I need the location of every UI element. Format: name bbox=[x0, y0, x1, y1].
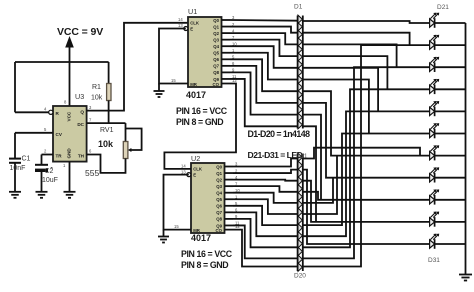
svg-text:555: 555 bbox=[85, 168, 99, 178]
wire D18 to LED D25 bbox=[303, 111, 430, 236]
label U1 bbox=[188, 7, 197, 16]
svg-text:Q9: Q9 bbox=[213, 77, 219, 82]
wire U2 Q7 to D18 bbox=[233, 212, 298, 236]
LED D22 bbox=[430, 35, 466, 50]
wire GND pin U3 bbox=[69, 162, 71, 192]
label 10nF bbox=[10, 165, 26, 172]
IC U1 4017 counter bbox=[184, 17, 230, 87]
label D1-D20 = 1n4148 bbox=[248, 129, 311, 139]
wire R pin to VCC net bbox=[15, 111, 49, 113]
svg-text:PIN 16 = VCC: PIN 16 = VCC bbox=[176, 106, 228, 116]
LED D29 bbox=[430, 189, 466, 204]
label PIN16 VCC U2 bbox=[181, 249, 233, 259]
svg-text:CO: CO bbox=[216, 228, 223, 233]
svg-text:Q8: Q8 bbox=[213, 70, 219, 75]
LED D24 bbox=[430, 79, 466, 94]
wire U2 Q8 to D19 bbox=[233, 219, 298, 247]
wire D11 feed corridor bbox=[303, 148, 420, 159]
wire D6 to LED D26 bbox=[303, 80, 369, 134]
wire TR pin to C2 bbox=[42, 155, 54, 165]
diode D2 bbox=[298, 30, 302, 38]
svg-text:MR: MR bbox=[190, 82, 198, 87]
svg-text:C2: C2 bbox=[45, 168, 54, 175]
label 555 bbox=[85, 168, 99, 178]
label PIN16 VCC U1 bbox=[176, 106, 228, 116]
svg-text:15: 15 bbox=[174, 224, 179, 229]
svg-text:10nF: 10nF bbox=[10, 165, 26, 172]
wire D12 to LED D31 bbox=[303, 170, 430, 244]
svg-text:GND: GND bbox=[67, 148, 72, 159]
label U2 bbox=[191, 154, 200, 163]
wire D16 to LED D27 bbox=[303, 156, 337, 214]
svg-text:CLK: CLK bbox=[193, 167, 203, 172]
wire LED cathode bus bbox=[465, 23, 467, 275]
wire U1 Q5 to D6 bbox=[230, 53, 298, 80]
svg-text:14: 14 bbox=[178, 17, 183, 22]
svg-text:CO: CO bbox=[213, 82, 220, 87]
svg-text:CV: CV bbox=[56, 132, 63, 137]
svg-text:Q3: Q3 bbox=[213, 37, 219, 42]
wire diode column anode rail bbox=[297, 16, 299, 129]
wire U1 Q4 to D5 bbox=[230, 46, 298, 68]
svg-text:Q1: Q1 bbox=[216, 171, 222, 176]
diode D1 bbox=[298, 15, 302, 31]
capacitor C2 bbox=[35, 165, 53, 192]
wire D2 to LED D22 bbox=[303, 33, 410, 45]
wire D5 to LED D25 bbox=[303, 68, 378, 112]
svg-text:C1: C1 bbox=[22, 156, 31, 163]
wire U2 Q0 to D11 bbox=[233, 159, 298, 167]
ground bbox=[459, 275, 472, 281]
diode D5 bbox=[298, 60, 302, 76]
LED D25 bbox=[430, 101, 466, 116]
svg-text:13: 13 bbox=[178, 23, 183, 28]
svg-text:Q1: Q1 bbox=[213, 24, 219, 29]
label C2 bbox=[45, 168, 54, 175]
wire U1 Q7 to D8 bbox=[230, 66, 298, 103]
wire D7 to LED D27 bbox=[303, 91, 430, 155]
wire U2 CO to D20 cathode rail bbox=[225, 230, 298, 267]
wire U2 Q6 to D17 bbox=[233, 206, 298, 225]
svg-text:Q6: Q6 bbox=[216, 204, 222, 209]
label RV1 10k bbox=[98, 139, 114, 149]
diode D12 bbox=[298, 161, 302, 177]
wire U1 Q1 to D2 bbox=[230, 27, 298, 33]
wire diode column anode rail bbox=[297, 154, 299, 272]
svg-text:10k: 10k bbox=[91, 95, 103, 102]
diode D8 bbox=[298, 98, 302, 106]
node label D21 bbox=[437, 4, 449, 11]
node label D11 bbox=[296, 153, 308, 160]
svg-text:15: 15 bbox=[171, 78, 176, 83]
svg-text:D21: D21 bbox=[437, 4, 449, 11]
diode D11 bbox=[298, 153, 302, 161]
label PIN8 GND U2 bbox=[181, 260, 228, 270]
wire U2 Q4 to D15 bbox=[233, 193, 298, 203]
label 4017 U2 bbox=[191, 233, 211, 243]
wire U1 CO to U2 CLK bbox=[164, 84, 236, 169]
LED D27 bbox=[430, 145, 466, 160]
wire D19 to LED D24 bbox=[303, 89, 430, 247]
LED D30 bbox=[430, 212, 466, 227]
svg-text:PIN 8 = GND: PIN 8 = GND bbox=[176, 117, 223, 127]
wire U2 Q5 to D16 bbox=[233, 199, 298, 214]
label R1 10k bbox=[91, 95, 103, 102]
label 4017 U1 bbox=[186, 90, 206, 100]
svg-text:Q8: Q8 bbox=[216, 217, 222, 222]
label D21-D31 = LED bbox=[248, 150, 303, 160]
node label D20 bbox=[294, 273, 306, 280]
wire U1 Q3 to D4 bbox=[230, 40, 298, 56]
diode D4 bbox=[298, 53, 302, 61]
pin numbers U2 bbox=[174, 162, 240, 229]
wire D17 to LED D26 bbox=[303, 134, 430, 226]
wire U1 Q6 to D7 bbox=[230, 59, 298, 91]
svg-text:RV1: RV1 bbox=[100, 127, 114, 134]
wire U2 E and MR to ground bbox=[164, 175, 192, 230]
LED D31 bbox=[430, 234, 466, 249]
LED D28 bbox=[430, 167, 466, 182]
label VCC = 9V bbox=[57, 26, 103, 38]
wire D20 to LED D23 bbox=[303, 67, 430, 258]
svg-text:4017: 4017 bbox=[191, 233, 211, 243]
svg-text:U3: U3 bbox=[75, 92, 84, 101]
wire diode column cathode rail bbox=[302, 154, 304, 272]
ground bbox=[64, 192, 76, 198]
svg-text:D1-D20 = 1n4148: D1-D20 = 1n4148 bbox=[248, 129, 311, 139]
ground bbox=[9, 192, 21, 198]
wire D9 to LED D29 bbox=[303, 115, 321, 200]
label U3 bbox=[75, 92, 84, 101]
wire U1 E and MR to ground bbox=[159, 29, 188, 84]
svg-text:4017: 4017 bbox=[186, 90, 206, 100]
svg-text:Q3: Q3 bbox=[216, 184, 222, 189]
ground bbox=[36, 192, 48, 198]
svg-text:13: 13 bbox=[181, 169, 186, 174]
svg-text:E: E bbox=[193, 173, 196, 178]
potentiometer RV1 bbox=[123, 129, 141, 159]
LED D21 bbox=[430, 13, 466, 28]
svg-text:10uF: 10uF bbox=[42, 177, 58, 184]
wire VCC rail bbox=[15, 62, 109, 112]
svg-text:Q9: Q9 bbox=[216, 223, 222, 228]
svg-text:D21-D31 = LED: D21-D31 = LED bbox=[248, 150, 303, 160]
diode D13 bbox=[298, 177, 302, 185]
label C1 bbox=[22, 156, 31, 163]
wire U2 Q9 to D20 bbox=[233, 225, 298, 258]
diode D20 bbox=[298, 255, 302, 271]
svg-text:E: E bbox=[190, 27, 193, 32]
wire U1 Q0 to D1 bbox=[230, 19, 298, 22]
wire U1 Q2 to D3 bbox=[230, 33, 298, 44]
svg-text:D1: D1 bbox=[294, 4, 303, 11]
power VCC symbol bbox=[65, 36, 74, 62]
svg-text:U2: U2 bbox=[191, 154, 200, 163]
wire Q out 555 to U1 CLK bbox=[87, 23, 188, 111]
svg-text:Q4: Q4 bbox=[216, 191, 222, 196]
LED D26 bbox=[430, 123, 466, 138]
svg-text:PIN 16 = VCC: PIN 16 = VCC bbox=[181, 249, 233, 259]
diode D9 bbox=[298, 106, 302, 122]
svg-text:Q7: Q7 bbox=[216, 210, 222, 215]
wire D1 to LED D21 bbox=[303, 21, 430, 23]
capacitor C1 bbox=[9, 159, 21, 192]
wire D14 to LED D29 bbox=[303, 192, 430, 200]
pin 4 bubble U3 bbox=[49, 110, 53, 114]
svg-text:TR: TR bbox=[56, 153, 63, 158]
diode D19 bbox=[298, 239, 302, 255]
diode D15 bbox=[298, 200, 302, 208]
wire U1 Q8 to D9 bbox=[230, 72, 298, 114]
svg-text:Q2: Q2 bbox=[216, 177, 222, 182]
label RV1 bbox=[100, 127, 114, 134]
wire D15 to LED D28 bbox=[303, 178, 333, 203]
diode D18 bbox=[298, 232, 302, 240]
diode D17 bbox=[298, 216, 302, 232]
resistor R1 bbox=[107, 84, 111, 124]
svg-text:PIN 8 = GND: PIN 8 = GND bbox=[181, 260, 228, 270]
svg-text:Q7: Q7 bbox=[213, 64, 219, 69]
svg-text:Q: Q bbox=[80, 110, 84, 115]
svg-text:CLK: CLK bbox=[190, 21, 200, 26]
svg-text:D20: D20 bbox=[294, 273, 306, 280]
diode D7 bbox=[298, 83, 302, 99]
diode D14 bbox=[298, 185, 302, 201]
svg-text:D31: D31 bbox=[428, 257, 440, 264]
svg-text:Q0: Q0 bbox=[213, 18, 219, 23]
ground bbox=[158, 230, 169, 243]
svg-text:Q6: Q6 bbox=[213, 57, 219, 62]
wire U1 Q9 to D10 bbox=[230, 79, 298, 126]
svg-text:10k: 10k bbox=[98, 139, 114, 149]
svg-text:Q4: Q4 bbox=[213, 44, 219, 49]
svg-text:Q0: Q0 bbox=[216, 164, 222, 169]
svg-text:DC: DC bbox=[77, 122, 84, 127]
wire D8 to LED D28 bbox=[303, 103, 430, 178]
svg-text:TH: TH bbox=[78, 153, 85, 158]
svg-text:Q5: Q5 bbox=[216, 197, 222, 202]
wire D3 to LED D23 bbox=[303, 44, 397, 67]
svg-text:14: 14 bbox=[181, 163, 186, 168]
label PIN8 GND U1 bbox=[176, 117, 223, 127]
diode D6 bbox=[298, 75, 302, 83]
wire D10 to LED D30 bbox=[303, 126, 316, 222]
svg-text:VCC: VCC bbox=[67, 111, 72, 121]
svg-text:Q5: Q5 bbox=[213, 51, 219, 56]
svg-text:VCC = 9V: VCC = 9V bbox=[57, 26, 103, 38]
wire U2 Q3 to D14 bbox=[233, 186, 298, 192]
diode D3 bbox=[298, 38, 302, 54]
svg-text:Q2: Q2 bbox=[213, 31, 219, 36]
wire U2 Q1 to D12 bbox=[233, 170, 298, 173]
wire diode column cathode rail bbox=[302, 16, 304, 129]
wire TH pin to RV1 bbox=[87, 155, 126, 173]
node label D31 bbox=[428, 257, 440, 264]
svg-text:U1: U1 bbox=[188, 7, 197, 16]
wire D13 to LED D30 bbox=[303, 181, 430, 222]
wire D20 rail to LED D22 bbox=[303, 45, 430, 266]
IC U3 555 timer bbox=[53, 106, 87, 162]
label R1 bbox=[92, 84, 101, 91]
svg-text:R1: R1 bbox=[92, 84, 101, 91]
pin numbers U1 bbox=[171, 15, 237, 83]
wire DC pin node bbox=[87, 123, 126, 141]
wire U2 Q2 to D13 bbox=[233, 180, 298, 181]
pin numbers U3 bbox=[44, 100, 92, 169]
LED D23 bbox=[430, 57, 466, 72]
IC U2 4017 counter bbox=[187, 163, 233, 233]
wire CV pin to C1 bbox=[15, 133, 53, 158]
diode D10 bbox=[298, 121, 302, 129]
ground bbox=[154, 84, 165, 98]
wire D4 to LED D24 bbox=[303, 56, 388, 89]
label 10uF bbox=[42, 177, 58, 184]
node label D1 bbox=[294, 4, 303, 11]
diode D16 bbox=[298, 208, 302, 216]
